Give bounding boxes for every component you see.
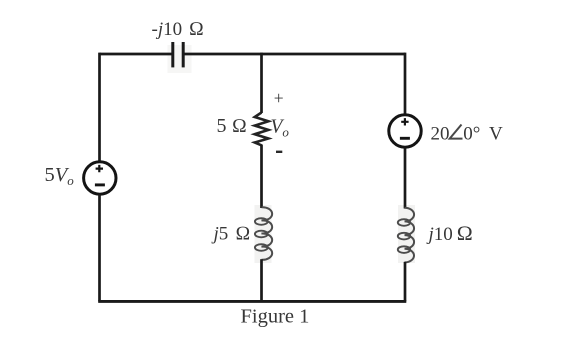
dependent source 5Vo circle <box>84 162 116 194</box>
source V1 minus sign <box>400 137 410 140</box>
wire right upper <box>404 53 407 115</box>
svg-text:-j10Ω: -j10Ω <box>152 19 205 40</box>
svg-text:+: + <box>274 88 284 108</box>
wire middle center <box>260 145 263 209</box>
svg-text:j10Ω: j10Ω <box>426 223 474 245</box>
wire middle upper <box>260 53 263 113</box>
capacitor C1 left plate <box>171 42 174 67</box>
svg-text:5Vo: 5Vo <box>45 164 75 188</box>
wire left lower <box>98 195 101 302</box>
svg-text:0°V: 0°V <box>463 123 503 144</box>
wire right middle <box>404 148 407 209</box>
inductor L1 loop 3 <box>255 244 268 251</box>
svg-text:Vo: Vo <box>271 116 290 139</box>
inductor L1 coil j5 ohm <box>262 207 273 259</box>
svg-text:j5Ω: j5Ω <box>211 223 251 244</box>
inductor L2 loop 1 <box>398 219 410 226</box>
capacitor C1 right plate <box>182 42 185 67</box>
scan highlight behind inductor L1 <box>255 205 272 263</box>
wire left upper <box>98 53 101 161</box>
svg-text:5Ω: 5Ω <box>217 115 247 137</box>
resistor R1 zigzag 5 ohm <box>255 113 269 146</box>
dependent source plus sign <box>96 165 103 172</box>
inductor L2 coil j10 ohm <box>405 208 415 263</box>
node polarity minus for Vo <box>276 151 282 153</box>
inductor L1 loop 1 <box>255 218 268 225</box>
wire top-right segment <box>183 53 405 56</box>
source V1 plus sign <box>401 118 408 125</box>
inductor L2 loop 3 <box>398 246 410 253</box>
source V1 circle 20 angle 0 <box>389 115 421 147</box>
svg-text:20: 20 <box>431 123 450 144</box>
inductor L2 loop 2 <box>398 233 410 240</box>
dependent source minus sign <box>95 183 105 186</box>
wire middle lower <box>260 259 263 301</box>
scan highlight behind inductor L2 <box>398 205 415 263</box>
wire right lower <box>404 262 407 302</box>
wire bottom <box>98 300 406 303</box>
angle symbol of phasor <box>450 125 463 139</box>
wire top-left segment <box>100 53 173 56</box>
inductor L1 loop 2 <box>255 231 268 238</box>
svg-text:Figure 1: Figure 1 <box>241 306 310 328</box>
scan highlight behind capacitor <box>168 45 192 73</box>
